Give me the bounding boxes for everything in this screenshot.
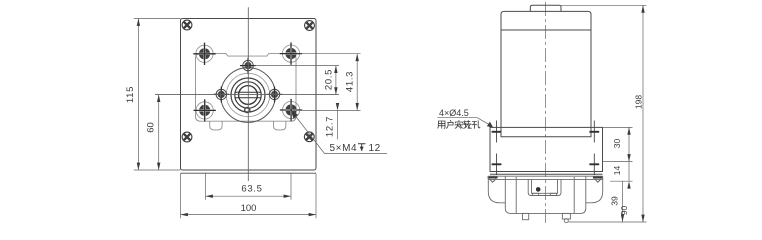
- side view centerline: [545, 2, 547, 223]
- horizontal centerline of front view: [156, 94, 339, 96]
- gearbox shoulders: [488, 176, 602, 203]
- gearbox mid body: [505, 177, 586, 214]
- svg-text:60: 60: [145, 122, 156, 133]
- dimension 90: [619, 206, 629, 216]
- dimension 41.3: [297, 54, 361, 111]
- central boss concentric circles: [221, 68, 276, 123]
- svg-text:12: 12: [369, 143, 381, 154]
- small screw E: [267, 86, 283, 102]
- right screw head under flange: [593, 176, 603, 182]
- shaft slot: [235, 92, 261, 97]
- svg-text:41.3: 41.3: [344, 71, 355, 92]
- glyph an 安: [455, 120, 463, 128]
- gearbox housing outline (rounded, stepped top): [196, 54, 297, 122]
- dimension 30: [603, 127, 633, 161]
- flange hole top-right: [589, 121, 599, 143]
- svg-text:198: 198: [634, 95, 644, 109]
- svg-text:90: 90: [619, 206, 629, 216]
- svg-text:12.7: 12.7: [325, 116, 336, 137]
- mounting flange: [490, 127, 603, 174]
- top extension line: [561, 4, 647, 6]
- dimension 100: [181, 174, 317, 219]
- dimension 115: [125, 19, 180, 171]
- housing bottom notches: [210, 121, 286, 130]
- front mounting plate: [181, 19, 317, 171]
- small screw N: [240, 58, 256, 74]
- glyph kong 孔: [472, 121, 480, 129]
- text: user mounting holes (CJK drawn as strokes): [438, 120, 480, 128]
- vertical centerline of front view: [247, 7, 249, 181]
- svg-text:39: 39: [610, 196, 620, 206]
- M4 screw bottom-left: [194, 99, 216, 121]
- dimension 20.5: [254, 66, 339, 95]
- svg-text:100: 100: [241, 203, 257, 214]
- leader 5xM4 depth 12: [292, 111, 387, 154]
- top bump: [530, 5, 561, 11]
- dimension 12.7: [325, 103, 340, 139]
- dimension 14: [610, 162, 633, 189]
- flange hole bottom-right: [589, 154, 599, 176]
- leader 4x04.5 user mounting holes: [437, 108, 493, 128]
- dimension 198: [634, 5, 645, 222]
- svg-text:5×M4: 5×M4: [330, 143, 358, 154]
- bottom lip band of plate: [181, 172, 317, 174]
- svg-text:14: 14: [612, 166, 622, 176]
- terminal cover: [528, 179, 561, 195]
- corner screw top-right: [305, 21, 315, 31]
- svg-text:63.5: 63.5: [241, 184, 262, 195]
- glyph yong 用: [438, 121, 445, 128]
- hidden bottom screw of boss: [245, 107, 250, 112]
- dimension 60: [145, 95, 160, 170]
- small screw W: [213, 86, 229, 102]
- corner screw bottom-left: [182, 132, 192, 142]
- svg-text:115: 115: [125, 86, 136, 103]
- M4 screw top-left: [193, 43, 215, 65]
- bottom extension line: [569, 221, 647, 223]
- svg-text:4×Ø4.5: 4×Ø4.5: [439, 108, 469, 118]
- svg-text:20.5: 20.5: [324, 69, 335, 90]
- corner screw bottom-right: [304, 132, 314, 142]
- svg-text:30: 30: [612, 139, 622, 149]
- flange hole bottom-left: [492, 154, 502, 176]
- gearbox feet: [523, 213, 571, 222]
- flange hole top-left: [492, 121, 502, 143]
- motor body: [501, 11, 591, 136]
- dimension 63.5: [206, 174, 292, 200]
- dimension 39: [610, 181, 625, 222]
- corner screw top-left: [182, 20, 192, 30]
- M4 screw top-right: [280, 42, 302, 64]
- M4 screw bottom-right: [280, 99, 302, 121]
- glyph hu 户: [447, 120, 454, 128]
- left screw head under flange: [488, 176, 498, 182]
- glyph zhuang 装: [464, 120, 472, 128]
